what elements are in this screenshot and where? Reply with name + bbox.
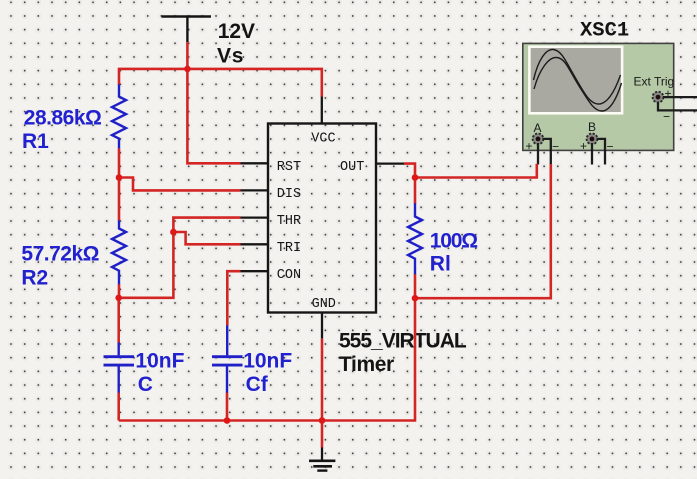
ext trig minus stub bbox=[658, 102, 697, 111]
svg-text:100Ω: 100Ω bbox=[430, 230, 477, 253]
wire R2 top lead bbox=[118, 178, 121, 221]
terminal A minus stub bbox=[543, 139, 551, 165]
svg-text:−: − bbox=[552, 139, 559, 153]
wire 12V stem bbox=[186, 42, 189, 69]
terminal A bbox=[533, 134, 544, 145]
ext trig plus stub bbox=[663, 96, 697, 98]
svg-text:TRI: TRI bbox=[277, 241, 301, 256]
power source Vs 12V symbol bbox=[162, 17, 212, 43]
wire Rl top lead bbox=[414, 178, 417, 204]
junction OUT node bbox=[412, 174, 419, 181]
capacitor Cf bbox=[212, 325, 243, 392]
resistor Rl bbox=[408, 203, 422, 274]
wire R2 bottom lead bbox=[118, 284, 121, 298]
resistor R1 bbox=[112, 84, 126, 148]
op timer U1 555_VIRTUAL box bbox=[241, 97, 405, 339]
svg-text:Cf: Cf bbox=[246, 373, 269, 396]
ext trig terminal bbox=[653, 92, 664, 103]
junction Rl bottom bbox=[412, 295, 419, 302]
svg-text:DIS: DIS bbox=[277, 187, 301, 202]
wire CON to Cf bbox=[227, 271, 240, 325]
svg-text:R1: R1 bbox=[22, 130, 49, 153]
wire OUT to node bbox=[404, 164, 415, 178]
ground symbol bbox=[309, 447, 335, 471]
pin stub VCC bbox=[321, 97, 323, 124]
svg-text:OUT: OUT bbox=[340, 160, 364, 175]
svg-text:RST: RST bbox=[277, 160, 301, 175]
terminal A plus stub bbox=[537, 143, 539, 165]
wire Cf bottom bbox=[226, 392, 229, 420]
svg-text:+: + bbox=[580, 139, 587, 153]
svg-text:+: + bbox=[665, 87, 672, 101]
svg-text:57.72kΩ: 57.72kΩ bbox=[21, 243, 99, 266]
wire R1 bottom lead bbox=[118, 148, 121, 177]
junction top rail bbox=[184, 66, 191, 73]
wire C bottom bbox=[117, 392, 120, 420]
capacitor C bbox=[104, 343, 135, 393]
svg-text:CON: CON bbox=[277, 268, 301, 283]
scope trace B bbox=[534, 57, 622, 111]
pin stub CON bbox=[241, 270, 269, 272]
pin stub THR bbox=[241, 216, 269, 218]
junction rail GND bbox=[319, 417, 326, 424]
terminal B bbox=[587, 134, 598, 145]
wire top rail with corners to R1 and VCC bbox=[119, 69, 322, 97]
svg-text:GND: GND bbox=[312, 297, 336, 312]
svg-text:Timer: Timer bbox=[339, 353, 394, 376]
svg-text:VCC: VCC bbox=[311, 131, 335, 146]
svg-text:−: − bbox=[663, 110, 670, 124]
svg-text:R2: R2 bbox=[21, 267, 48, 290]
svg-text:28.86kΩ: 28.86kΩ bbox=[24, 107, 102, 130]
oscilloscope XSC1 bbox=[523, 20, 697, 165]
wire C top bbox=[117, 298, 120, 343]
wire GND upper bbox=[321, 339, 324, 421]
svg-text:−: − bbox=[607, 139, 614, 153]
wire GND lower bbox=[321, 421, 324, 448]
wire bottom rail bbox=[119, 298, 415, 420]
wire THR branch bbox=[119, 218, 241, 298]
resistor R2 bbox=[112, 220, 126, 284]
junction rail Cf bbox=[224, 417, 231, 424]
pin stub GND bbox=[321, 313, 323, 339]
svg-text:10nF: 10nF bbox=[135, 349, 184, 372]
wire node to scope A plus bbox=[415, 164, 537, 178]
wire TRI branch bbox=[173, 232, 240, 244]
pin stub DIS bbox=[241, 189, 269, 191]
svg-text:C: C bbox=[138, 373, 153, 396]
svg-text:B: B bbox=[588, 120, 596, 134]
terminal B plus stub bbox=[591, 143, 593, 165]
svg-text:555_VIRTUAL: 555_VIRTUAL bbox=[339, 329, 467, 352]
scope trace A bbox=[534, 49, 621, 104]
pin stub TRI bbox=[241, 243, 269, 245]
wire DIS bbox=[119, 178, 241, 191]
svg-text:+: + bbox=[526, 139, 533, 153]
svg-text:THR: THR bbox=[277, 214, 301, 229]
wire scope A minus to Rl bottom bbox=[415, 164, 551, 298]
svg-text:10nF: 10nF bbox=[243, 349, 292, 372]
junction THR TRI bbox=[170, 229, 177, 236]
wire RST feed bbox=[187, 69, 240, 163]
svg-text:Vs: Vs bbox=[217, 44, 244, 67]
terminal B minus stub bbox=[597, 139, 606, 165]
pin stub RST bbox=[241, 162, 269, 164]
junction R2 C THR bbox=[115, 295, 122, 302]
svg-text:12V: 12V bbox=[218, 20, 255, 43]
pin stub OUT bbox=[376, 162, 404, 164]
svg-text:Rl: Rl bbox=[430, 253, 451, 276]
wire Rl bottom lead bbox=[414, 274, 417, 298]
junction R1 R2 DIS bbox=[116, 174, 123, 181]
svg-text:XSC1: XSC1 bbox=[580, 20, 629, 43]
